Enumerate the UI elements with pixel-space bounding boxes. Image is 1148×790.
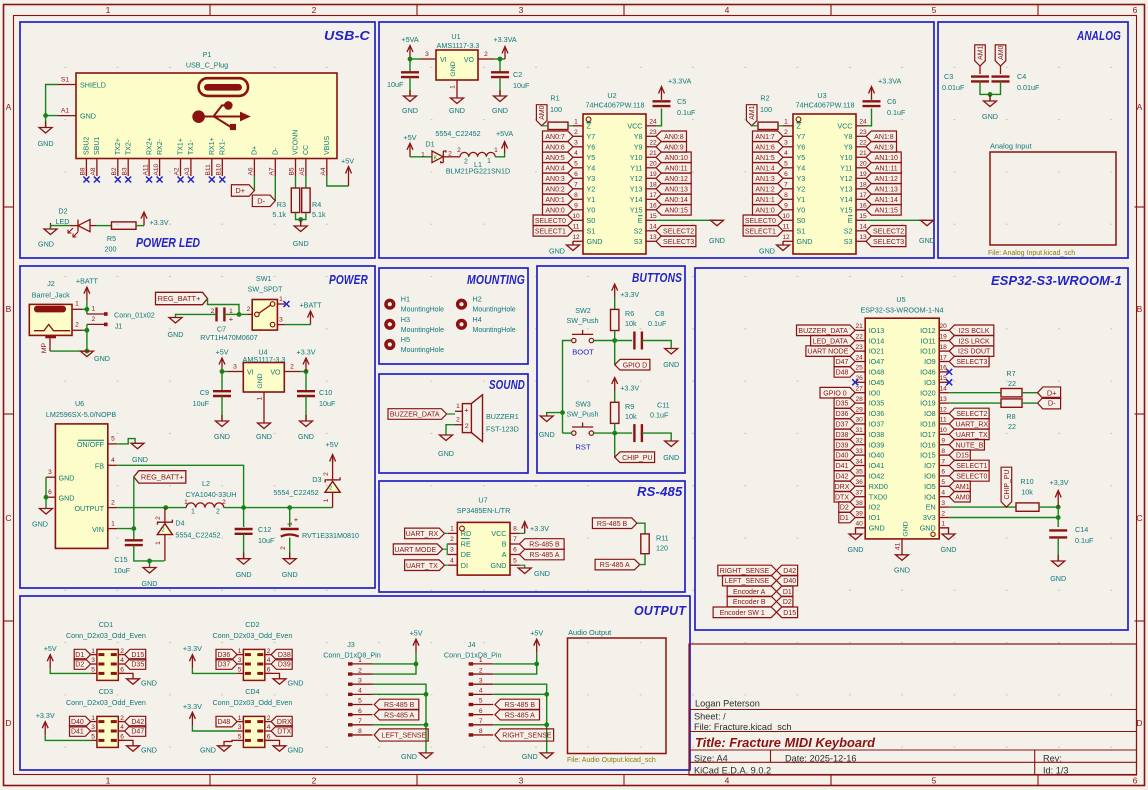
svg-text:Y6: Y6 (587, 142, 596, 151)
svg-text:Analog Input: Analog Input (990, 142, 1032, 151)
svg-text:5: 5 (238, 734, 242, 741)
svg-text:C6: C6 (887, 97, 896, 106)
svg-text:29: 29 (856, 406, 864, 413)
svg-text:D15: D15 (783, 610, 796, 617)
svg-text:AN1:0: AN1:0 (755, 207, 775, 214)
junction (544, 692, 549, 697)
svg-text:6: 6 (479, 708, 483, 715)
power +3.3V at R9 (612, 378, 640, 393)
svg-text:4: 4 (267, 657, 271, 664)
ground at J3 (401, 752, 432, 761)
svg-text:FST-123D: FST-123D (486, 425, 519, 434)
wire (243, 508, 245, 527)
wire (446, 425, 455, 435)
hierarchical label DTX (834, 491, 855, 502)
mounting hole H2 (456, 295, 516, 314)
svg-text:5: 5 (932, 776, 937, 786)
svg-text:+3.3V: +3.3V (183, 702, 202, 711)
wire (295, 176, 297, 188)
svg-text:DRX: DRX (835, 484, 850, 491)
wire (594, 340, 615, 342)
ground at C10 (298, 415, 314, 441)
svg-text:GND: GND (132, 455, 148, 464)
hierarchical label SELECT1 (533, 226, 573, 237)
ground at C2 (492, 90, 508, 115)
hierarchical label AN1:10 (866, 152, 901, 163)
svg-text:D47: D47 (836, 359, 849, 366)
svg-text:1: 1 (155, 541, 162, 545)
svg-text:GND: GND (449, 106, 465, 115)
svg-text:3: 3 (519, 5, 524, 15)
svg-text:GND: GND (663, 453, 679, 462)
svg-text:17: 17 (649, 192, 657, 199)
wire (640, 554, 645, 565)
wire (305, 372, 307, 392)
power +3.3VA (659, 77, 692, 100)
svg-text:1: 1 (75, 301, 79, 308)
svg-text:IO17: IO17 (920, 430, 936, 439)
no-connect (852, 379, 858, 385)
svg-text:1: 1 (106, 776, 111, 786)
svg-text:0.1uF: 0.1uF (1075, 536, 1094, 545)
svg-text:Y14: Y14 (630, 195, 643, 204)
svg-text:1: 1 (238, 648, 242, 655)
hierarchical label D15 (125, 649, 146, 660)
wire (82, 308, 87, 310)
svg-text:MountingHole: MountingHole (401, 307, 444, 314)
svg-text:RX2-: RX2- (157, 138, 164, 155)
svg-text:1: 1 (358, 657, 362, 664)
svg-text:6: 6 (120, 734, 124, 741)
svg-text:GND: GND (59, 493, 75, 502)
svg-text:AM0: AM0 (539, 105, 546, 119)
wire (901, 553, 903, 556)
svg-text:+3.3V: +3.3V (297, 348, 316, 357)
wire (285, 324, 311, 326)
capacitor C11 0.1uF (634, 401, 669, 443)
svg-text:C15: C15 (114, 555, 127, 564)
svg-text:11: 11 (783, 224, 790, 231)
hierarchical label AN1:4 (753, 163, 784, 174)
IC U2 74HC4067PW.118 (572, 91, 657, 254)
wire (192, 668, 237, 673)
hierarchical label D41 (834, 460, 855, 471)
wire (208, 299, 240, 315)
hierarchical label D1 (74, 649, 90, 660)
capacitor C4 0.01uF (992, 72, 1040, 92)
svg-text:IO38: IO38 (869, 430, 885, 439)
wire (263, 405, 265, 423)
svg-text:5: 5 (513, 557, 517, 564)
wire (118, 673, 133, 678)
wire (782, 241, 784, 245)
svg-text:2: 2 (267, 648, 271, 655)
wire (520, 565, 525, 568)
svg-text:RS-485 A: RS-485 A (600, 562, 630, 569)
wire (499, 59, 501, 72)
svg-text:23: 23 (856, 344, 864, 351)
hierarchical label AM1 (975, 45, 986, 66)
svg-text:SBU2: SBU2 (84, 137, 91, 155)
svg-text:IO47: IO47 (869, 357, 885, 366)
junction (304, 369, 309, 374)
svg-text:10uF: 10uF (387, 80, 404, 89)
svg-text:IO7: IO7 (924, 461, 936, 470)
svg-text:22: 22 (1008, 379, 1016, 388)
wire (45, 477, 47, 497)
svg-text:200: 200 (105, 245, 117, 254)
svg-text:Date: 2025-12-16: Date: 2025-12-16 (785, 754, 857, 764)
svg-text:NUTE_B: NUTE_B (956, 442, 984, 449)
svg-text:5.1k: 5.1k (272, 210, 286, 219)
section box OUTPUT (20, 596, 690, 770)
sheet Audio Output (567, 628, 666, 764)
svg-text:+3.3V: +3.3V (150, 218, 169, 227)
capacitor C7 RVT1H470M0607 (200, 307, 257, 342)
switch SW3 SW_Push (567, 400, 599, 452)
svg-text:UART MODE: UART MODE (394, 547, 436, 554)
wire (96, 225, 112, 227)
svg-text:SELECT3: SELECT3 (873, 239, 904, 246)
hierarchical label D47 (834, 356, 855, 367)
svg-text:IO46: IO46 (920, 368, 936, 377)
svg-text:17: 17 (940, 354, 948, 361)
svg-text:Y12: Y12 (630, 174, 643, 183)
power +5V at U4 (216, 348, 229, 372)
junction (1056, 505, 1061, 510)
svg-text:SW2: SW2 (575, 306, 591, 315)
svg-text:AN1:9: AN1:9 (874, 144, 894, 151)
hierarchical label AN0:5 (543, 152, 574, 163)
wire (50, 330, 87, 351)
wire (224, 507, 333, 509)
svg-text:CC: CC (303, 145, 310, 155)
svg-text:1: 1 (106, 5, 111, 15)
svg-text:2: 2 (120, 715, 124, 722)
svg-text:B: B (1137, 304, 1143, 314)
svg-text:D1: D1 (840, 515, 849, 522)
svg-text:S3: S3 (634, 237, 643, 246)
svg-text:RX1-: RX1- (220, 138, 227, 155)
wire (949, 402, 1001, 404)
svg-text:GND: GND (869, 524, 885, 533)
svg-text:19: 19 (940, 334, 948, 341)
svg-text:E: E (638, 216, 643, 225)
hierarchical label RS-485 A at R11 (595, 559, 640, 570)
svg-text:H5: H5 (401, 335, 410, 344)
wire (176, 314, 217, 317)
wire (594, 432, 633, 434)
svg-text:IO15: IO15 (920, 451, 936, 460)
svg-text:BUZZER1: BUZZER1 (486, 412, 519, 421)
svg-text:UART_RX: UART_RX (956, 422, 989, 429)
hierarchical label AN0:0 (543, 205, 574, 216)
svg-text:B3: B3 (121, 167, 128, 175)
svg-text:VO: VO (270, 370, 281, 377)
wire (373, 664, 417, 674)
svg-text:GND: GND (894, 566, 910, 575)
power +5V at VBUS (341, 157, 354, 187)
hierarchical label DRX (834, 481, 855, 492)
svg-text:FB: FB (95, 461, 104, 470)
section box BUTTONS (537, 266, 685, 473)
svg-text:120: 120 (656, 544, 668, 553)
svg-text:3V3: 3V3 (923, 513, 936, 522)
svg-text:BUZZER_DATA: BUZZER_DATA (798, 328, 848, 335)
svg-text:R8: R8 (1006, 412, 1015, 421)
svg-text:AMS1117-3.3: AMS1117-3.3 (437, 41, 480, 50)
wire (939, 528, 948, 534)
svg-text:TX2-: TX2- (125, 139, 132, 155)
svg-text:D4: D4 (175, 518, 184, 527)
hierarchical label D38 (271, 649, 292, 660)
svg-text:S3: S3 (844, 237, 853, 246)
hierarchical label SELECT2 (866, 226, 906, 237)
svg-text:10k: 10k (1021, 488, 1033, 497)
wire (373, 684, 427, 694)
svg-text:BLM21PG221SN1D: BLM21PG221SN1D (446, 167, 510, 176)
hierarchical label D37 (216, 659, 237, 670)
svg-text:0.1uF: 0.1uF (648, 319, 667, 328)
svg-text:D39: D39 (836, 442, 849, 449)
svg-text:AN1:7: AN1:7 (755, 134, 775, 141)
svg-text:AN0:9: AN0:9 (664, 144, 684, 151)
svg-text:SW3: SW3 (575, 400, 591, 409)
ground at C8 (663, 349, 679, 370)
svg-text:18: 18 (859, 182, 867, 189)
wire (45, 116, 47, 128)
junction (85, 349, 90, 354)
ground at C3 C4 (982, 95, 998, 121)
svg-text:2: 2 (155, 516, 162, 520)
svg-text:D38: D38 (836, 432, 849, 439)
svg-text:GND: GND (534, 569, 550, 578)
svg-text:IO36: IO36 (869, 409, 885, 418)
svg-text:EN: EN (926, 503, 936, 512)
svg-text:AN0:1: AN0:1 (545, 197, 565, 204)
svg-text:Barrel_Jack: Barrel_Jack (32, 291, 70, 300)
svg-text:10uF: 10uF (513, 81, 530, 90)
hierarchical label D35 (125, 659, 146, 670)
svg-text:GND: GND (709, 236, 725, 245)
svg-text:5: 5 (111, 436, 115, 443)
hierarchical label AN0:4 (543, 163, 574, 174)
title block (689, 644, 1137, 775)
svg-text:Y11: Y11 (840, 163, 852, 172)
svg-text:15: 15 (649, 213, 657, 220)
svg-text:3: 3 (91, 724, 95, 731)
svg-text:D37: D37 (217, 662, 230, 669)
resistor R8 22 (1001, 399, 1022, 431)
svg-text:SELECT3: SELECT3 (956, 359, 987, 366)
power +3.3V at R6 (612, 284, 640, 299)
svg-text:7: 7 (358, 718, 362, 725)
svg-text:1: 1 (487, 158, 491, 165)
hierarchical label SELECT3 (949, 356, 989, 367)
svg-text:Y9: Y9 (634, 142, 643, 151)
svg-text:POWER: POWER (329, 272, 368, 287)
svg-text:22: 22 (859, 140, 867, 147)
ground at E pin (919, 220, 935, 245)
svg-text:IO40: IO40 (869, 451, 885, 460)
svg-text:SELECT1: SELECT1 (956, 463, 987, 470)
junction (988, 92, 993, 97)
svg-text:2: 2 (161, 528, 164, 534)
svg-text:IO5: IO5 (924, 482, 936, 491)
svg-text:A11: A11 (142, 164, 149, 176)
svg-text:GND: GND (38, 240, 54, 249)
svg-text:C2: C2 (513, 70, 522, 79)
svg-text:21: 21 (649, 150, 657, 157)
hierarchical label D- (252, 195, 275, 207)
svg-text:B11: B11 (205, 164, 212, 176)
svg-text:AN0:11: AN0:11 (665, 165, 688, 172)
hierarchical label Encoder B (727, 596, 776, 607)
hierarchical label D48 (834, 367, 855, 378)
capacitor C10 (297, 388, 336, 408)
hierarchical label AN1:11 (866, 163, 901, 174)
svg-text:Y8: Y8 (634, 132, 643, 141)
hierarchical label BUZZER_DATA (797, 325, 856, 336)
svg-text:5: 5 (784, 161, 788, 168)
section box ESP32 (695, 268, 1128, 630)
svg-text:D48: D48 (836, 370, 849, 377)
wire (1022, 402, 1038, 404)
svg-text:B2: B2 (111, 167, 118, 175)
svg-text:24: 24 (649, 119, 657, 126)
svg-text:4: 4 (120, 657, 124, 664)
svg-text:A2: A2 (174, 167, 181, 175)
svg-text:7: 7 (513, 536, 517, 543)
svg-text:ON/OFF: ON/OFF (77, 440, 105, 449)
hierarchical label RS-485 A at J3 (374, 709, 419, 720)
hierarchical label UART_TX (949, 429, 989, 440)
svg-text:8: 8 (784, 192, 788, 199)
svg-text:2: 2 (457, 147, 461, 154)
hierarchical label UART MODE (393, 544, 442, 555)
svg-text:4: 4 (941, 490, 945, 497)
wire (546, 694, 548, 724)
svg-text:AN0:12: AN0:12 (665, 176, 688, 183)
svg-text:22: 22 (1008, 422, 1016, 431)
hierarchical label GPIO 0 (820, 387, 855, 398)
svg-text:RIGHT_SENSE: RIGHT_SENSE (720, 568, 770, 575)
svg-text:GND: GND (1050, 574, 1066, 583)
svg-text:VCC: VCC (491, 529, 506, 538)
svg-text:3: 3 (91, 657, 95, 664)
hierarchical label AN0:1 (543, 194, 574, 205)
svg-text:R3: R3 (277, 200, 286, 209)
svg-text:GND: GND (539, 430, 555, 439)
svg-text:2: 2 (247, 306, 251, 313)
svg-text:TXD0: TXD0 (869, 492, 887, 501)
hierarchical label AN0:7 (543, 131, 574, 142)
svg-text:GND: GND (257, 373, 264, 388)
svg-text:E: E (848, 216, 853, 225)
wire (637, 523, 645, 534)
hierarchical label D+ (231, 185, 254, 197)
connector J2 Barrel_Jack (29, 279, 82, 353)
hierarchical label SELECT3 (656, 236, 696, 247)
svg-text:AN1:15: AN1:15 (875, 207, 898, 214)
wire (253, 176, 255, 191)
wire (373, 724, 427, 726)
wire (305, 176, 307, 188)
svg-text:10: 10 (782, 213, 790, 220)
hierarchical label SELECT2 (656, 226, 696, 237)
hierarchical label D2 (839, 502, 855, 513)
svg-text:D2: D2 (58, 207, 67, 216)
svg-text:12: 12 (782, 234, 790, 241)
capacitor C12 (235, 525, 275, 545)
ground at U2 (549, 241, 579, 256)
svg-text:DTX: DTX (277, 729, 291, 736)
IC U7 SP3485EN-L/TR (448, 496, 520, 576)
wire (415, 653, 417, 664)
svg-text:VCC: VCC (837, 121, 852, 130)
no-connect (125, 177, 131, 183)
wire (296, 213, 306, 220)
hierarchical label LED_DATA (811, 335, 856, 346)
svg-text:4: 4 (450, 557, 454, 564)
svg-text:1: 1 (479, 657, 483, 664)
svg-text:GND: GND (236, 570, 252, 579)
connector CD1 Conn_02x03_Odd_Even (66, 620, 146, 680)
svg-text:AM1: AM1 (955, 484, 970, 491)
section box POWER (20, 266, 375, 588)
svg-text:+3.3V: +3.3V (620, 290, 639, 299)
section box USB-C (20, 22, 375, 258)
hierarchical label UART NODE (806, 346, 855, 357)
svg-text:GND: GND (903, 521, 910, 536)
power +5VA at L1 (496, 129, 513, 153)
power +3.3VA (869, 77, 902, 100)
svg-text:GND: GND (522, 752, 538, 761)
wire (86, 301, 88, 310)
svg-text:D37: D37 (836, 422, 849, 429)
power +5V at J3 (410, 629, 423, 653)
svg-text:+: + (294, 515, 299, 524)
ground at CD2 (273, 679, 303, 688)
junction (220, 369, 225, 374)
svg-text:GND: GND (288, 746, 304, 755)
svg-text:Y2: Y2 (797, 184, 806, 193)
svg-text:C3: C3 (944, 72, 953, 81)
wire (546, 725, 548, 753)
svg-text:27: 27 (856, 386, 864, 393)
svg-text:D47: D47 (131, 729, 144, 736)
svg-text:GND: GND (941, 545, 957, 554)
IC U6 LM2596SX-5.0/NOPB (46, 399, 117, 548)
svg-text:6: 6 (358, 708, 362, 715)
svg-text:2: 2 (464, 159, 468, 166)
svg-text:2: 2 (120, 648, 124, 655)
svg-text:1: 1 (91, 715, 95, 722)
no-connect (94, 177, 100, 183)
svg-text:D: D (5, 718, 11, 728)
svg-text:Y15: Y15 (840, 205, 853, 214)
svg-text:GND: GND (200, 746, 216, 755)
ground at U3 (759, 241, 789, 256)
svg-text:13: 13 (940, 396, 948, 403)
hierarchical label UART_RX (405, 528, 445, 539)
svg-text:2: 2 (280, 546, 287, 550)
svg-text:6: 6 (1133, 5, 1138, 15)
connector J1 Conn_01x02 (87, 306, 155, 331)
svg-text:Id: 1/3: Id: 1/3 (1043, 766, 1069, 776)
svg-text:2: 2 (784, 129, 788, 136)
svg-text:D35: D35 (836, 401, 849, 408)
